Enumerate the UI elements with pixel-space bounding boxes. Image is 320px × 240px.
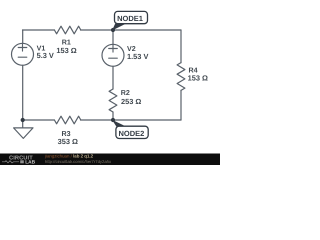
svg-text:353 Ω: 353 Ω: [58, 137, 78, 146]
resistor R3: [54, 116, 80, 124]
node NODE1 callout box: [115, 11, 148, 23]
svg-text:153 Ω: 153 Ω: [188, 74, 208, 83]
wire middle vertical upper: [112, 30, 114, 44]
svg-text:LAB: LAB: [25, 159, 35, 165]
wire top-left horizontal: [23, 29, 55, 31]
svg-text:153 Ω: 153 Ω: [56, 46, 76, 55]
logo zigzag: [2, 161, 19, 163]
svg-text:http://circuitlab.com/c/5er7r7: http://circuitlab.com/c/5er7r7dy2a5x: [45, 159, 112, 164]
node NODE1 callout tail: [112, 24, 126, 31]
ground: [14, 128, 33, 138]
wire bottom-left horizontal: [23, 119, 55, 121]
voltage source V1: [12, 43, 34, 65]
node NODE2 callout box: [116, 126, 148, 138]
resistor R4: [177, 63, 185, 91]
svg-text:jiangzichuan / lab 2 q1.2: jiangzichuan / lab 2 q1.2: [44, 154, 94, 159]
wire middle to node2: [112, 112, 114, 120]
svg-text:R2: R2: [121, 89, 130, 97]
logo LAB: [20, 160, 24, 163]
node junction dot NODE2: [111, 118, 115, 122]
voltage source V2: [102, 44, 124, 66]
wire middle below V2: [112, 66, 114, 89]
svg-text:NODE1: NODE1: [117, 14, 143, 23]
watermark bar: [0, 154, 220, 166]
wire left vertical upper: [22, 30, 24, 43]
svg-text:1.53 V: 1.53 V: [127, 52, 148, 61]
wire bottom-right horizontal: [81, 119, 182, 121]
node junction dot NODE1: [111, 28, 115, 32]
node junction dot left-bottom: [21, 118, 25, 122]
wire right vertical upper: [180, 30, 182, 63]
resistor R1: [54, 26, 80, 34]
node NODE2 callout tail: [112, 120, 127, 127]
ground stub: [22, 120, 24, 128]
resistor R2: [109, 89, 117, 112]
svg-text:5.3 V: 5.3 V: [37, 51, 54, 60]
wire left vertical lower: [22, 65, 24, 120]
wire right vertical lower: [180, 90, 182, 120]
wire top-right horizontal: [81, 29, 182, 31]
svg-text:253 Ω: 253 Ω: [121, 97, 141, 106]
svg-text:NODE2: NODE2: [118, 129, 144, 138]
